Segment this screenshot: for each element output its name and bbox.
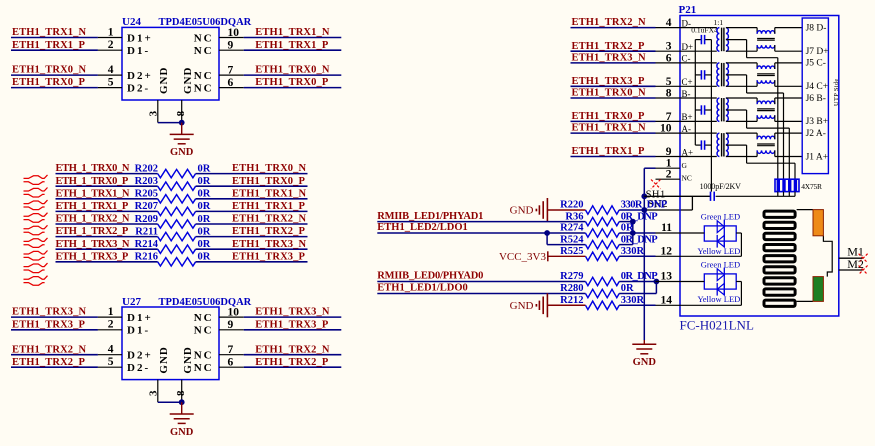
svg-text:ETH1_TRX3_N: ETH1_TRX3_N	[232, 239, 307, 250]
choke L3 lower winding	[757, 115, 775, 118]
wire SH1 to 1000pF capacitor	[644, 195, 710, 197]
svg-text:ETH1_TRX2_P: ETH1_TRX2_P	[255, 357, 329, 368]
jack nose outline	[823, 236, 832, 277]
choke L3 upper winding	[757, 101, 775, 104]
wire R212 to P21 pin 14	[619, 304, 655, 306]
wire ETH_1_TRX2_P to R211	[56, 236, 158, 238]
transformer T4 core	[721, 133, 723, 156]
yellow LED diode	[717, 235, 724, 247]
svg-text:D1-: D1-	[127, 325, 150, 337]
wire ETH1_TRX3_P to U27 pin 2	[11, 329, 98, 331]
resistor R524	[586, 240, 620, 248]
wire ETH1_TRX3_N from U27 pin 10	[244, 316, 342, 318]
resistor R211	[158, 232, 196, 240]
svg-text:ETH1_TRX0_P: ETH1_TRX0_P	[232, 176, 306, 187]
svg-text:ETH_1_TRX1_P: ETH_1_TRX1_P	[56, 201, 129, 212]
wire ETH1_TRX2_P to P21 pin 3	[571, 50, 656, 52]
transformer T4 (A pair) primary winding	[717, 133, 719, 156]
pin 3 of U24	[157, 100, 159, 123]
choke L2 upper winding	[757, 66, 775, 69]
jack outline top	[797, 209, 813, 211]
svg-text:1:1: 1:1	[714, 18, 724, 27]
svg-text:ETH1_TRX0_P: ETH1_TRX0_P	[572, 111, 646, 122]
svg-text:NC: NC	[194, 350, 214, 362]
wire choke L2 to J outputs	[774, 63, 776, 69]
choke L1 upper winding	[757, 31, 775, 34]
svg-text:D2+: D2+	[127, 350, 153, 362]
pin 10 of U24	[219, 37, 244, 39]
wire R274 to P21 pin 11	[619, 232, 655, 234]
svg-text:ETH1_TRX0_N: ETH1_TRX0_N	[232, 163, 307, 174]
svg-text:2: 2	[666, 169, 672, 181]
svg-text:GND: GND	[182, 67, 194, 94]
svg-text:ETH1_TRX3_P: ETH1_TRX3_P	[255, 319, 329, 330]
svg-text:J5 C-: J5 C-	[806, 59, 826, 69]
junction SH1	[641, 193, 647, 199]
wire LED to P21 pin	[736, 281, 741, 283]
svg-text:6: 6	[228, 77, 234, 89]
resistor R216	[158, 258, 196, 266]
pin 10 of P21	[656, 132, 681, 134]
svg-text:D2+: D2+	[127, 70, 153, 82]
svg-text:12: 12	[661, 246, 673, 258]
pin 14 of P21	[656, 304, 681, 306]
svg-text:ETH1_TRX1_N: ETH1_TRX1_N	[255, 27, 330, 38]
svg-text:3: 3	[148, 390, 160, 396]
pin 8 of P21	[656, 97, 681, 99]
ESD protection IC U27	[122, 307, 219, 380]
svg-text:8: 8	[666, 88, 672, 100]
wire ETH1_TRX0_P from U24 pin 6	[244, 87, 342, 89]
wire ETH1_TRX1_P from U24 pin 9	[244, 49, 342, 51]
wire ETH1_TRX2_N to P21 pin 4	[571, 27, 656, 29]
resistor R207	[158, 207, 196, 215]
svg-text:R211: R211	[135, 226, 158, 237]
twisted-pair mark 7	[24, 251, 48, 255]
svg-text:Yellow LED: Yellow LED	[698, 246, 741, 256]
svg-text:0R: 0R	[198, 252, 211, 263]
svg-text:1: 1	[108, 306, 114, 318]
svg-text:ETH1_TRX1_N: ETH1_TRX1_N	[232, 188, 307, 199]
orange tab	[813, 210, 823, 236]
green tab	[813, 277, 823, 302]
wire ETH1_TRX2_P from U27 pin 6	[244, 366, 342, 368]
wire SH vertical from pin 1 to ground	[643, 168, 645, 340]
svg-text:ETH1_TRX0_N: ETH1_TRX0_N	[255, 65, 330, 76]
transformer T1 secondary winding	[726, 28, 729, 52]
pin 4 of U27	[98, 354, 122, 356]
svg-text:9: 9	[228, 319, 234, 331]
wire R214 to ETH1_TRX3_N	[196, 248, 308, 250]
capacitor 0.1uF unit D	[695, 39, 701, 41]
junction at U27 ground	[179, 399, 185, 405]
svg-text:A-: A-	[682, 124, 692, 134]
pin M2 of P21	[839, 269, 863, 271]
svg-text:13: 13	[661, 271, 673, 283]
svg-text:Yellow LED: Yellow LED	[698, 294, 741, 304]
ground symbol at SH	[643, 340, 645, 344]
twisted-pair mark 5	[24, 225, 48, 229]
pin 9 of U24	[219, 49, 244, 51]
svg-text:GND: GND	[158, 346, 170, 373]
svg-text:R525: R525	[560, 246, 583, 257]
yellow LED diode	[717, 283, 724, 295]
choke L2 lower winding	[757, 80, 775, 83]
svg-text:ETH1_TRX1_P: ETH1_TRX1_P	[232, 201, 306, 212]
wire ETH1_TRX1_P to U24 pin 2	[11, 49, 98, 51]
pin 9 of P21	[656, 156, 681, 158]
transformer T4 secondary winding	[726, 133, 728, 156]
wire ETH1_TRX3_N to P21 pin 6	[571, 62, 656, 64]
svg-text:ETH_1_TRX2_P: ETH_1_TRX2_P	[56, 226, 129, 237]
svg-text:ETH1_TRX0_P: ETH1_TRX0_P	[12, 77, 86, 88]
wire R525 to P21 pin 12	[619, 255, 655, 257]
wire T4 secondary bottom to choke	[726, 156, 757, 158]
pin 1 of U27	[98, 316, 122, 318]
svg-text:ETH1_TRX1_P: ETH1_TRX1_P	[255, 40, 329, 51]
choke L4 core	[757, 143, 775, 145]
pin 4 of U24	[98, 74, 122, 76]
svg-text:B+: B+	[682, 112, 693, 122]
svg-text:ETH1_TRX0_N: ETH1_TRX0_N	[572, 88, 647, 99]
svg-text:D2-: D2-	[127, 83, 150, 95]
svg-text:ETH1_TRX2_N: ETH1_TRX2_N	[572, 17, 647, 28]
wire ETH1_TRX3_P to P21 pin 5	[571, 85, 656, 87]
wire center tap C to terminator	[783, 93, 785, 179]
svg-text:0R: 0R	[198, 189, 211, 200]
wire P21 pin to transformer T4 primary bottom	[680, 156, 717, 158]
svg-text:5: 5	[666, 76, 672, 88]
svg-text:0R_DNP: 0R_DNP	[621, 234, 658, 245]
svg-text:ETH1_LED2/LDO1: ETH1_LED2/LDO1	[377, 222, 467, 233]
svg-text:ETH_1_TRX0_N: ETH_1_TRX0_N	[56, 163, 130, 174]
svg-text:ETH1_TRX3_N: ETH1_TRX3_N	[255, 307, 330, 318]
svg-text:NC: NC	[194, 45, 214, 57]
resistor R525	[586, 252, 620, 260]
svg-text:J4 C+: J4 C+	[806, 82, 829, 92]
resistor R220	[586, 206, 620, 214]
transformer T1 core	[721, 28, 723, 52]
svg-text:0R_DNP: 0R_DNP	[621, 211, 658, 222]
capacitor 0.1uF unit C	[695, 74, 701, 76]
wire ETH1_TRX2_N to U27 pin 4	[11, 354, 98, 356]
pin 2 of U24	[98, 49, 122, 51]
resistor R274	[586, 229, 620, 237]
resistor R279	[586, 277, 620, 285]
choke L2 core	[757, 73, 775, 75]
pin 12 of P21	[656, 255, 681, 257]
svg-text:6: 6	[228, 357, 234, 369]
svg-text:R279: R279	[560, 271, 583, 282]
pin 7 of U27	[219, 354, 244, 356]
svg-text:U24: U24	[122, 16, 141, 28]
transformer T1 (D pair) primary winding	[717, 28, 720, 52]
resistor R202	[158, 169, 196, 177]
svg-text:GND: GND	[510, 205, 534, 217]
wire ETH1_TRX1_N to U24 pin 1	[11, 37, 98, 39]
svg-text:ETH1_TRX2_N: ETH1_TRX2_N	[12, 344, 87, 355]
capacitor bus vertical right	[710, 40, 712, 192]
wire center tap A to terminator	[794, 163, 796, 179]
wire T4 center tap	[726, 144, 747, 146]
svg-text:GND: GND	[158, 67, 170, 94]
wire P21 pin to transformer T1 primary top	[680, 27, 717, 29]
wire T3 secondary top to choke	[726, 97, 757, 99]
wires terminator pack to SH bus	[777, 192, 779, 197]
svg-text:ETH1_TRX0_N: ETH1_TRX0_N	[12, 65, 87, 76]
svg-text:GND: GND	[170, 147, 194, 158]
transformer T3 core	[721, 98, 723, 121]
svg-text:D1-: D1-	[127, 45, 150, 57]
svg-text:NC: NC	[194, 32, 214, 44]
pin 2 of U27	[98, 329, 122, 331]
svg-text:R280: R280	[560, 283, 583, 294]
wire R36 output	[619, 221, 633, 223]
svg-text:D1+: D1+	[127, 312, 153, 324]
svg-text:Green LED: Green LED	[701, 260, 740, 270]
svg-text:NC: NC	[194, 70, 214, 82]
wire choke L4 to J outputs	[774, 133, 776, 139]
no-ERC cross on pin 2	[651, 180, 661, 189]
transformer T3 (B pair) primary winding	[717, 98, 719, 121]
twisted-pair mark 2	[24, 188, 48, 192]
bicolor LED body Green LED1/Yellow LED1	[704, 226, 736, 241]
wire ETH1_TRX2_P to U27 pin 5	[11, 366, 98, 368]
wire joining pins 3 and 8 of U27	[158, 401, 182, 403]
no-ERC cross on M2	[859, 266, 868, 275]
transformer T3 secondary winding	[726, 98, 728, 121]
wire ETH1_TRX3_P from U27 pin 9	[244, 329, 342, 331]
svg-text:NC: NC	[194, 325, 214, 337]
wire ETH1_TRX2_N from U27 pin 7	[244, 354, 342, 356]
ground symbol below U24	[181, 123, 183, 135]
svg-text:NC: NC	[194, 312, 214, 324]
svg-text:VCC_3V3: VCC_3V3	[499, 251, 547, 263]
svg-text:ETH_1_TRX1_N: ETH_1_TRX1_N	[56, 188, 130, 199]
svg-text:ETH1_TRX1_N: ETH1_TRX1_N	[572, 123, 647, 134]
jack outline bottom	[797, 300, 813, 302]
svg-text:R203: R203	[135, 176, 158, 187]
junction pin13 row / R280 riser	[654, 279, 660, 285]
svg-text:D-: D-	[682, 18, 692, 28]
svg-text:9: 9	[228, 40, 234, 52]
wire ETH1_TRX0_P to P21 pin 7	[571, 120, 656, 122]
svg-text:R220: R220	[560, 200, 583, 211]
wire P21 pin to transformer T2 primary top	[680, 62, 717, 64]
pin 3 of U27	[157, 380, 159, 403]
wire ETH1_TRX0_N from U24 pin 7	[244, 74, 342, 76]
wire P21 pin to transformer T1 primary bottom	[680, 50, 717, 52]
transformer T2 core	[721, 63, 723, 86]
wire ETH_1_TRX2_N to R209	[56, 223, 158, 225]
svg-text:14: 14	[661, 295, 673, 307]
wire R524 output	[619, 244, 633, 246]
pin 7 of U24	[219, 74, 244, 76]
choke L4 lower winding	[757, 150, 775, 153]
resistor pack 4X75R	[775, 179, 799, 191]
capacitor bus vertical left	[694, 40, 696, 146]
pin 4 of P21	[656, 27, 681, 29]
choke L3 core	[757, 108, 775, 110]
wire ETH1_TRX0_P to U24 pin 5	[11, 87, 98, 89]
junction riser/pin11 row	[630, 230, 636, 236]
svg-text:4X75R: 4X75R	[801, 182, 822, 191]
svg-text:NC: NC	[682, 174, 692, 183]
svg-text:4: 4	[108, 344, 114, 356]
svg-text:D1+: D1+	[127, 32, 153, 44]
resistor R214	[158, 245, 196, 253]
no-ERC cross on M1	[859, 254, 868, 263]
svg-text:2: 2	[108, 39, 114, 51]
svg-text:NC: NC	[194, 83, 214, 95]
wire P21 pin to LED Green LED1	[680, 232, 704, 234]
svg-text:ETH1_TRX2_P: ETH1_TRX2_P	[232, 226, 306, 237]
wire ETH1_TRX1_N from U24 pin 10	[244, 37, 342, 39]
svg-text:GND: GND	[510, 300, 534, 312]
svg-text:ETH_1_TRX2_N: ETH_1_TRX2_N	[56, 214, 130, 225]
inner UTP-side box	[802, 18, 828, 174]
pin 9 of U27	[219, 329, 244, 331]
capacitor 0.1uF unit B	[695, 109, 701, 111]
wire T1 center tap	[726, 39, 747, 41]
svg-text:R207: R207	[135, 201, 158, 212]
resistor R205	[158, 195, 196, 203]
twisted-pair mark 9	[24, 276, 48, 280]
svg-text:M2: M2	[847, 257, 864, 271]
RJ45 jack contacts	[764, 211, 795, 217]
transformer T2 secondary winding	[726, 63, 729, 86]
svg-text:SH1: SH1	[646, 190, 666, 201]
pin 1 of U24	[98, 37, 122, 39]
svg-text:ETH1_TRX2_N: ETH1_TRX2_N	[232, 214, 307, 225]
twisted-pair mark 4	[24, 213, 48, 217]
twisted-pair mark 8	[24, 263, 48, 267]
wire P21 pin to transformer T2 primary bottom	[680, 85, 717, 87]
svg-text:ETH1_TRX1_N: ETH1_TRX1_N	[12, 27, 87, 38]
svg-text:6: 6	[666, 52, 672, 64]
svg-text:8: 8	[175, 110, 187, 116]
svg-text:GND: GND	[182, 346, 194, 373]
wire R280 output riser to pin13 row	[619, 293, 656, 295]
wire R209 to ETH1_TRX2_N	[196, 223, 308, 225]
svg-text:UTP Side: UTP Side	[833, 78, 840, 106]
junction R274 row to R524 branch	[544, 230, 550, 236]
svg-text:FC-H021LNL: FC-H021LNL	[680, 318, 754, 333]
wire T1 secondary bottom to choke	[726, 50, 757, 52]
svg-text:R205: R205	[135, 189, 158, 200]
svg-text:RMIIB_LED0/PHYAD0: RMIIB_LED0/PHYAD0	[377, 271, 483, 282]
wire ETH1_TRX1_P to P21 pin 9	[571, 156, 656, 158]
wire choke L3 to J outputs	[774, 98, 776, 104]
svg-text:J3 B+: J3 B+	[806, 117, 829, 127]
wire T2 center tap	[726, 74, 747, 76]
svg-text:B-: B-	[682, 89, 691, 99]
wire R203 to ETH1_TRX0_P	[196, 185, 308, 187]
svg-text:10: 10	[660, 123, 672, 135]
svg-text:ETH1_TRX3_P: ETH1_TRX3_P	[232, 251, 306, 262]
svg-text:10: 10	[228, 27, 240, 39]
svg-text:330R: 330R	[621, 246, 645, 257]
svg-text:5: 5	[108, 356, 114, 368]
resistor R36	[586, 217, 620, 225]
twisted-pair mark 1	[24, 175, 48, 179]
wire center tap D to terminator	[777, 58, 779, 180]
wire ETH_1_TRX3_P to R216	[56, 261, 158, 263]
svg-text:ETH1_TRX3_N: ETH1_TRX3_N	[572, 53, 647, 64]
ESD protection IC U24	[122, 27, 219, 100]
svg-text:ETH1_LED1/LDO0: ETH1_LED1/LDO0	[377, 283, 467, 294]
wire T4 secondary top to choke	[726, 132, 757, 134]
wire ETH1_LED2/LDO1 to R274	[377, 232, 585, 234]
svg-text:ETH1_TRX2_P: ETH1_TRX2_P	[572, 41, 646, 52]
svg-text:0R_DNP: 0R_DNP	[621, 271, 658, 282]
choke L4 upper winding	[757, 136, 775, 139]
wire branch down to R524	[546, 233, 548, 245]
wire R279 to P21 pin 13	[619, 281, 655, 283]
resistor R203	[158, 182, 196, 190]
svg-text:3: 3	[148, 110, 160, 116]
wire ETH1_TRX0_N to P21 pin 8	[571, 97, 656, 99]
svg-text:R524: R524	[560, 234, 584, 245]
svg-text:R214: R214	[135, 239, 159, 250]
wire T1 secondary top to choke	[726, 27, 757, 29]
svg-text:GND: GND	[170, 427, 194, 438]
transformer T2 (C pair) primary winding	[717, 63, 720, 86]
green LED diode	[717, 221, 724, 233]
wire T3 center tap	[726, 109, 747, 111]
choke L1 lower winding	[757, 45, 775, 48]
pin 7 of P21	[656, 120, 681, 122]
wire riser joining R36 R274 R524	[632, 222, 634, 245]
wire R205 to ETH1_TRX1_N	[196, 198, 308, 200]
pin 6 of U24	[219, 87, 244, 89]
svg-text:0R: 0R	[198, 214, 211, 225]
svg-text:A+: A+	[682, 147, 694, 157]
pin 6 of U27	[219, 366, 244, 368]
capacitor 0.1uF unit A	[695, 144, 701, 146]
svg-text:J2 A-: J2 A-	[806, 129, 826, 139]
ground symbol below U27	[181, 402, 183, 414]
pin 11 of P21	[656, 232, 681, 234]
svg-text:G: G	[682, 161, 688, 170]
svg-text:ETH1_TRX1_P: ETH1_TRX1_P	[12, 40, 86, 51]
svg-text:NC: NC	[194, 362, 214, 374]
pin 5 of U24	[98, 87, 122, 89]
svg-text:ETH1_TRX3_P: ETH1_TRX3_P	[572, 76, 646, 87]
svg-text:J7 D+: J7 D+	[806, 47, 829, 57]
resistor R212	[586, 301, 620, 309]
wire P21 pin to transformer T3 primary top	[680, 97, 717, 99]
svg-text:330R: 330R	[621, 295, 645, 306]
svg-text:R212: R212	[560, 295, 583, 306]
junction at U24 ground	[179, 120, 185, 126]
bicolor LED body Green LED2/Yellow LED2	[704, 274, 736, 289]
pin 8 of U24	[181, 100, 183, 123]
svg-text:R36: R36	[565, 211, 583, 222]
wire RMIIB_LED1/PHYAD1 to R36	[377, 221, 585, 223]
svg-text:0R: 0R	[198, 163, 211, 174]
svg-text:4: 4	[666, 17, 672, 29]
svg-text:1000pF/2KV: 1000pF/2KV	[700, 182, 742, 191]
svg-text:7: 7	[228, 64, 234, 76]
svg-text:ETH1_TRX3_P: ETH1_TRX3_P	[12, 319, 86, 330]
svg-text:ETH_1_TRX0_P: ETH_1_TRX0_P	[56, 176, 129, 187]
svg-text:0R: 0R	[198, 226, 211, 237]
svg-text:RMIIB_LED1/PHYAD1: RMIIB_LED1/PHYAD1	[377, 211, 483, 222]
green LED diode	[717, 269, 724, 281]
wire ETH_1_TRX1_N to R205	[56, 198, 158, 200]
wire R207 to ETH1_TRX1_P	[196, 210, 308, 212]
